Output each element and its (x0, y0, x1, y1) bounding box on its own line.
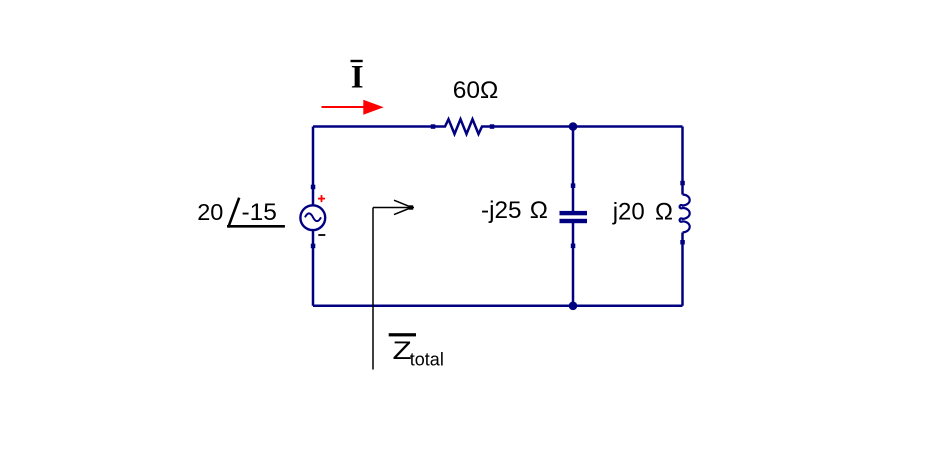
svg-text:60Ω: 60Ω (453, 77, 499, 104)
svg-text:I: I (351, 60, 364, 96)
svg-text:20: 20 (197, 199, 223, 225)
svg-text:-j25: -j25 (481, 197, 522, 224)
svg-text:j20: j20 (612, 198, 645, 225)
svg-text:total: total (410, 350, 444, 370)
svg-text:Ω: Ω (655, 198, 673, 225)
svg-text:-15: -15 (242, 199, 277, 226)
svg-text:Ω: Ω (530, 197, 548, 224)
